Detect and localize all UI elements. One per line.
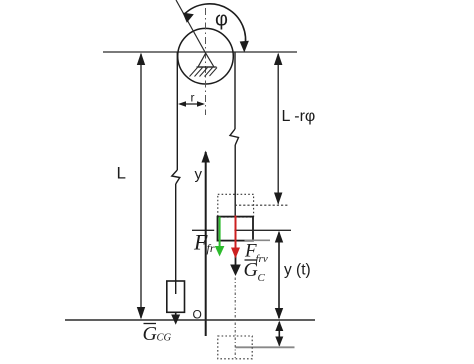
gray final-level line [236,346,295,348]
svg-text:CG: CG [157,333,172,344]
right rope upper [234,53,236,130]
right rope lower [234,145,236,217]
trajectory dash-dot line [234,278,236,359]
pivot support triangle [198,53,214,67]
pivot hatching [190,68,218,77]
small double arrow below bottom line [278,322,280,346]
svg-text:G: G [143,323,158,345]
dimension y(t) [278,233,280,319]
current-level line right segment [234,229,291,231]
left rope break [172,170,180,184]
radius r dimension arrow [180,103,203,105]
svg-text:y: y [195,166,203,183]
dimension L [140,54,142,318]
cart rectangle (mass C) [218,217,254,241]
counterweight rectangle [167,281,185,312]
left rope upper [176,53,178,171]
weight arrow G_CG [175,312,177,316]
pulley centerline (dash-dot) [205,8,207,115]
label G_C with overbar [245,259,257,261]
svg-text:r: r [191,91,195,105]
weight arrow G_C (black) [235,241,237,267]
svg-text:L -rφ: L -rφ [282,108,316,125]
y axis [205,152,207,336]
gray level line beside cart [245,239,271,241]
radius reference line (angled) [176,0,206,53]
svg-text:y (t): y (t) [284,262,311,279]
rotation arc phi [185,4,246,49]
dashed initial-level line [235,204,289,206]
arc arrowhead left [183,13,194,23]
label G_CG with overbar [144,323,157,325]
svg-text:φ: φ [215,9,228,31]
ghost cart rectangle (initial position, dotted) [218,194,254,217]
rope end inside counterweight [175,281,177,294]
pulley wheel [178,28,234,84]
svg-text:fr: fr [207,241,215,255]
force arrow F_fr (green) [219,217,221,248]
current-level line left segment [192,229,214,231]
svg-text:G: G [244,259,259,281]
pivot base line [197,66,217,68]
right rope break [230,129,239,145]
arc arrowhead right [240,41,249,53]
ghost cart rectangle (final position, dotted) [218,336,252,359]
top reference line [103,51,297,53]
left rope lower [175,184,177,281]
svg-text:L: L [117,164,126,183]
dimension L - r phi [277,54,279,204]
svg-text:C: C [258,272,266,284]
bottom reference line [65,319,315,321]
force arrow F_frv (red) [235,216,237,250]
